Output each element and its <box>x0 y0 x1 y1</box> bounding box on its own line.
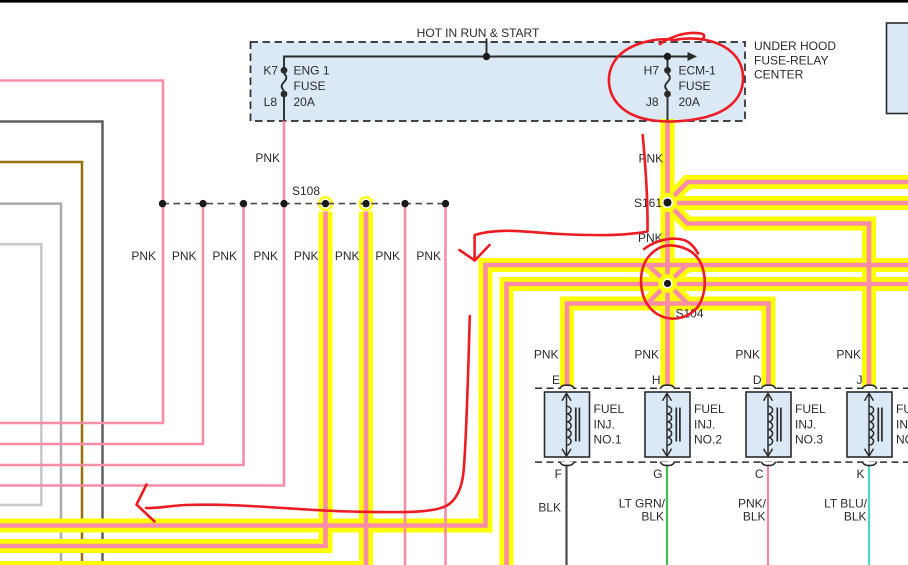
svg-text:PNK: PNK <box>836 348 861 362</box>
svg-text:20A: 20A <box>294 95 315 109</box>
wire S104 diagonal stub SW <box>648 284 668 304</box>
injector NO.3 plunger arrow <box>764 393 781 456</box>
wire L8 to box edge <box>283 94 285 121</box>
svg-text:K7: K7 <box>263 64 278 78</box>
wire core S108 drop 5 <box>0 212 326 547</box>
injector output wire K LT BLU/BLK <box>868 465 870 565</box>
svg-text:PNK: PNK <box>335 249 360 263</box>
wire S104 diagonal stub NW <box>648 265 668 284</box>
svg-text:K: K <box>856 467 864 481</box>
svg-text:PNK: PNK <box>639 152 664 166</box>
svg-text:INJ.: INJ. <box>795 418 816 432</box>
svg-text:BLK: BLK <box>844 510 867 524</box>
svg-text:NO.1: NO.1 <box>594 433 622 447</box>
wire PNK S108 drop 2 <box>0 204 203 444</box>
svg-text:FUEL: FUEL <box>694 402 725 416</box>
arrowhead hot feed <box>688 52 698 61</box>
injector NO.3 core lines <box>776 408 778 442</box>
wire core J8 to S161 to S104 to injector no.2 <box>665 121 670 387</box>
svg-text:J: J <box>857 373 863 387</box>
splice dot S108-1 <box>159 200 166 207</box>
splice dot S108-2 <box>199 200 206 207</box>
svg-text:PNK: PNK <box>255 151 280 165</box>
svg-text:UNDER HOOD: UNDER HOOD <box>754 39 836 53</box>
wire S161 branch SE to injector no.4 pin J <box>668 203 870 389</box>
svg-text:PNK/: PNK/ <box>738 497 767 511</box>
node ring S108 dot5 highlight <box>318 196 333 211</box>
svg-text:FUEL: FUEL <box>896 402 908 416</box>
wire core S104 diagonals <box>648 265 668 284</box>
svg-text:PNK: PNK <box>534 348 559 362</box>
svg-text:CENTER: CENTER <box>754 68 804 82</box>
red circle tail top <box>660 33 704 44</box>
wire lower band injector no.1 pin E to injector no.3 pin D <box>567 304 769 390</box>
injector NO.1 core lines <box>575 408 577 442</box>
red circle around ECM-1 fuse <box>609 38 743 121</box>
wire core S161 NE branch <box>668 182 908 203</box>
red long arrowhead <box>137 485 155 522</box>
injector NO.2 bottom pin connector bracket <box>660 462 674 466</box>
svg-text:PNK: PNK <box>375 249 400 263</box>
wire PNK ENG1 fuse L8 through S108 dot4 to bottom left <box>0 120 284 486</box>
node S161 <box>662 197 673 208</box>
wire gray left <box>0 204 61 565</box>
svg-text:FUEL: FUEL <box>594 402 625 416</box>
svg-text:ECM-1: ECM-1 <box>679 64 717 78</box>
splice dot S108-6 <box>362 200 369 207</box>
wire light gray left <box>0 244 41 505</box>
highlight group: yellow traces <box>0 119 908 565</box>
fuel injector NO.3 box <box>746 392 791 457</box>
wire HOT IN RUN AND START drop <box>486 39 488 57</box>
fuel injector NO.2 box <box>645 392 690 457</box>
wire S104 level band to corner down off bottom <box>507 284 908 565</box>
fuel injector NO.1 box <box>545 392 590 457</box>
junction dot HOT drop <box>483 53 490 60</box>
fuse element ENG 1 <box>282 74 287 91</box>
partial component box top right <box>887 23 908 114</box>
red circle around S104 <box>641 246 705 319</box>
svg-text:INJ.: INJ. <box>896 418 908 432</box>
injector NO.3 bottom pin connector bracket <box>761 462 775 466</box>
injector NO.1 plunger arrow <box>562 393 579 456</box>
wire branch to ECM-1 fuse H7 <box>667 57 669 71</box>
connector dashed line top of injectors <box>535 387 908 389</box>
splice dot S108-8 <box>442 200 449 207</box>
injector NO.4 core lines <box>877 408 879 442</box>
wire core S161 SE branch to injector no.4 <box>668 203 870 387</box>
wire S108 highlighted drop 6 <box>0 212 366 565</box>
injector output wire G LT GRN/BLK <box>666 465 668 565</box>
wire S161 branch E to right edge <box>668 196 908 210</box>
wire PNK S108 drop 7 <box>404 204 407 565</box>
wire upper band to corner down to bottom left <box>0 265 908 526</box>
junction dot ECM branch <box>664 53 671 60</box>
fuse element ECM-1 <box>665 74 670 91</box>
svg-text:ENG 1: ENG 1 <box>294 64 330 78</box>
svg-text:BLK: BLK <box>641 510 664 524</box>
svg-text:FUEL: FUEL <box>795 402 826 416</box>
fuse pin dot J8 <box>664 91 671 98</box>
injector NO.1 coil <box>567 406 572 445</box>
svg-text:PNK: PNK <box>634 348 659 362</box>
top border bar <box>0 0 908 3</box>
wire hot feed horizontal in fuse box <box>284 57 689 71</box>
injector NO.1 bottom pin connector bracket <box>560 462 574 466</box>
injector output wire C PNK/BLK <box>767 465 769 565</box>
wire core S104 level band <box>507 284 908 565</box>
under hood fuse-relay center box <box>251 42 746 121</box>
svg-text:H7: H7 <box>644 64 660 78</box>
node ring S161 highlight <box>658 193 677 212</box>
svg-text:BLK: BLK <box>538 501 561 515</box>
svg-text:PNK: PNK <box>172 249 197 263</box>
injector NO.4 bottom pin connector bracket <box>862 462 876 466</box>
wire core S161 E branch <box>668 201 908 206</box>
svg-text:H: H <box>652 373 661 387</box>
svg-text:INJ.: INJ. <box>694 418 715 432</box>
svg-text:FUSE: FUSE <box>294 79 326 93</box>
svg-text:PNK: PNK <box>294 249 319 263</box>
splice dot S108-5 <box>322 200 329 207</box>
wire core lower band <box>567 304 769 388</box>
injector NO.4 top pin connector bracket <box>862 385 877 389</box>
red arrow from S161 area to left (down arrow) <box>475 135 648 258</box>
injector NO.4 coil <box>869 406 874 445</box>
injector NO.4 plunger arrow <box>865 393 882 456</box>
splice dot S108-4 <box>280 200 287 207</box>
svg-text:PNK: PNK <box>416 249 441 263</box>
splice dot S108-3 <box>240 200 247 207</box>
red circle tail crossing PNK <box>644 239 698 254</box>
svg-text:NO.2: NO.2 <box>694 433 722 447</box>
injector NO.3 top pin connector bracket <box>761 385 776 389</box>
red annotations <box>137 33 744 522</box>
splice bus S108 dashed <box>163 203 446 205</box>
svg-text:NO.3: NO.3 <box>795 433 823 447</box>
svg-text:D: D <box>753 373 762 387</box>
svg-text:FUSE: FUSE <box>679 79 711 93</box>
svg-text:E: E <box>552 373 560 387</box>
node S104 <box>662 278 672 288</box>
wire dark yellow left <box>0 162 82 565</box>
red long arrow bottom <box>146 316 470 512</box>
injector NO.2 coil <box>667 406 672 445</box>
wire S104 diagonal stub NE <box>668 265 688 284</box>
svg-text:20A: 20A <box>679 95 700 109</box>
wire S161 branch NE to right edge <box>668 182 908 203</box>
svg-text:NO.4: NO.4 <box>896 433 908 447</box>
plain pink wires <box>0 81 446 565</box>
wire dark gray left <box>0 122 103 565</box>
injector NO.2 plunger arrow <box>663 393 680 456</box>
fuel injector NO.4 box <box>847 392 892 457</box>
svg-text:G: G <box>653 467 662 481</box>
wire J8 to box edge <box>667 94 669 121</box>
connector dashed line bottom of injectors <box>535 461 908 463</box>
splice dot S108-7 <box>401 200 408 207</box>
svg-text:INJ.: INJ. <box>594 418 615 432</box>
svg-text:PNK: PNK <box>212 249 237 263</box>
svg-text:C: C <box>755 467 764 481</box>
svg-text:F: F <box>555 467 562 481</box>
injector NO.2 top pin connector bracket <box>660 385 675 389</box>
svg-text:S108: S108 <box>292 184 320 198</box>
wire PNK S108 drop 8 <box>444 204 447 565</box>
black circuit wires top <box>282 39 689 122</box>
fuse pin dot L8 <box>281 91 288 98</box>
svg-text:LT GRN/: LT GRN/ <box>619 497 666 511</box>
node ring S108 dot6 highlight <box>359 196 374 211</box>
fuse pin dot H7 <box>664 67 671 74</box>
wire PNK S108 drop 3 <box>0 204 244 465</box>
wire core S108 drop 6 <box>0 212 366 565</box>
injector NO.3 coil <box>768 406 773 445</box>
pink cores of highlighted traces <box>0 121 908 565</box>
wire core upper band <box>0 265 908 526</box>
svg-text:PNK: PNK <box>253 249 278 263</box>
svg-text:J8: J8 <box>646 95 659 109</box>
svg-text:FUSE-RELAY: FUSE-RELAY <box>754 54 828 68</box>
injector output wire F BLK <box>565 465 567 565</box>
wire S104 diagonal stub SE <box>668 284 688 304</box>
injector NO.2 core lines <box>675 408 677 442</box>
red arrowhead <box>460 245 490 261</box>
wire ECM-1 fuse feed highlight (J8 to S161 to S104 to injector no.2 pin H) <box>661 119 675 389</box>
wire PNK left edge to S108 dot1 to bottom left <box>0 81 163 424</box>
svg-text:HOT IN RUN & START: HOT IN RUN & START <box>417 26 540 40</box>
svg-text:L8: L8 <box>264 95 278 109</box>
injector NO.1 top pin connector bracket <box>560 385 575 389</box>
svg-text:LT BLU/: LT BLU/ <box>824 497 868 511</box>
fuse pin dot K7 <box>281 67 288 74</box>
node ring S104 highlight <box>658 274 677 293</box>
svg-text:BLK: BLK <box>743 510 766 524</box>
wire S108 highlighted drop 5 <box>0 212 326 547</box>
svg-text:PNK: PNK <box>735 348 760 362</box>
svg-text:PNK: PNK <box>131 249 156 263</box>
